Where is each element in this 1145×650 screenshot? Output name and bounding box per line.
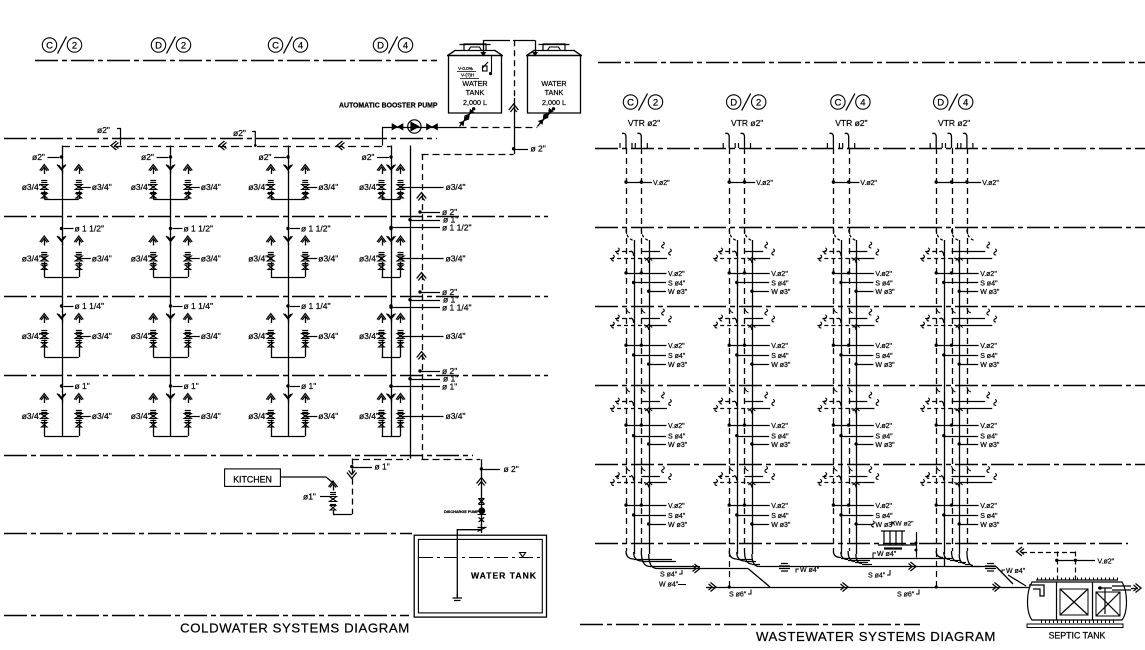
riser flow arrow above floor 375 [417, 352, 427, 358]
svg-text:ø3/4": ø3/4" [318, 411, 338, 421]
svg-text:W ø3": W ø3" [980, 522, 1000, 529]
branch fitting cluster D/2 at floor 306 [729, 308, 733, 313]
labels V/S/W C/2 at floor 306 [624, 344, 627, 347]
svg-text:WATER TANK: WATER TANK [471, 571, 537, 581]
svg-text:W ø4": W ø4" [800, 567, 820, 574]
svg-text:ø 1 1/2": ø 1 1/2" [442, 222, 471, 232]
labels V/S/W C/2 at floor 227 [624, 271, 627, 274]
water tank T2 (2000 L) [528, 51, 581, 114]
unit2 row4 down-flow arrow [166, 394, 175, 400]
unit4 row3 down-flow arrow [387, 314, 396, 320]
unit3 row2 down-flow arrow [284, 236, 293, 242]
soil/waste stack (solid) C/4-2 [856, 240, 858, 554]
unit3 row3 left fixture [266, 314, 275, 320]
svg-text:V.ø2": V.ø2" [668, 423, 685, 430]
pump suction line [382, 127, 459, 129]
unit3 row2 left fixture [266, 236, 275, 242]
septic outfall arrow [1131, 588, 1138, 590]
svg-text:ø3/4": ø3/4" [248, 411, 268, 421]
svg-text:WATER: WATER [541, 79, 566, 88]
unit3 row3 label ø3/4" right [304, 335, 307, 338]
svg-text:S ø4": S ø4" [875, 434, 893, 441]
unit2 row3 label ø3/4" right [186, 335, 189, 338]
svg-text:S ø6": S ø6" [729, 592, 747, 599]
svg-text:KW ø2": KW ø2" [891, 521, 914, 528]
unit3 row4 junction [286, 384, 289, 387]
branch fitting cluster D/2 at floor 385 [729, 387, 733, 392]
svg-text:2: 2 [181, 40, 186, 51]
unit2 row3 junction [169, 304, 172, 307]
vent terminal C/4-2 [845, 133, 849, 148]
up arrow tank feed [477, 478, 487, 484]
water level line [419, 557, 541, 559]
unit3 row1 left fixture [266, 165, 275, 171]
unit1 row2 left fixture [40, 236, 49, 242]
unit1 row1 junction [60, 155, 63, 158]
label V.ø2" first floor D/2 [728, 180, 731, 183]
unit4 row1 down-flow arrow [387, 165, 396, 171]
svg-text:ø3/4": ø3/4" [248, 182, 268, 192]
svg-text:ø3/4": ø3/4" [248, 254, 268, 264]
svg-text:VTR ø2": VTR ø2" [938, 118, 970, 128]
branch fitting cluster C/4 at floor 464 [833, 466, 837, 471]
svg-text:ø3/4": ø3/4" [131, 182, 151, 192]
labels V/S/W C/4 at floor 306 [832, 344, 835, 347]
branch fitting cluster D/4 at floor 306 [936, 308, 940, 313]
vent terminal C/2-2 [637, 133, 641, 148]
label W ø4" at G3 upper [873, 553, 876, 559]
svg-text:S ø4": S ø4" [875, 353, 893, 360]
G1 elbows to collector [626, 551, 634, 559]
unit1 row3 label ø3/4" right [77, 335, 80, 338]
svg-text:W ø3": W ø3" [771, 289, 791, 296]
tank1 outlet diagonal [460, 109, 474, 127]
svg-text:ø 1": ø 1" [375, 462, 390, 472]
svg-text:ø3/4": ø3/4" [201, 411, 221, 421]
unit4 row2 down-flow arrow [387, 236, 396, 242]
svg-text:V.ø2": V.ø2" [980, 343, 997, 350]
svg-text:D: D [377, 40, 384, 51]
unit4 row4 right fixture [396, 394, 405, 400]
labels V/S/W C/4 at floor 464 [832, 503, 835, 506]
svg-text:ø3/4": ø3/4" [22, 254, 42, 264]
unit4 row4 left fixture [377, 394, 386, 400]
labels V/S/W D/2 at floor 464 [728, 503, 731, 506]
septic internal partitions [1056, 582, 1058, 620]
septic internal X brace 1 [1060, 589, 1088, 615]
svg-text:S ø4": S ø4" [980, 513, 998, 520]
svg-text:ø 1": ø 1" [75, 381, 90, 391]
link main to dashed riser [422, 154, 514, 156]
tank fill header pipe [483, 40, 505, 42]
floor line R6 (right) [595, 543, 1128, 545]
label V.ø2" first floor C/2 [624, 180, 627, 183]
unit4 row1 junction [389, 155, 392, 158]
svg-text:W ø3": W ø3" [980, 362, 1000, 369]
down flow arrow kitchen branch [347, 473, 357, 479]
unit2 row3 bottom connector [153, 357, 188, 359]
supply riser (solid) x=410 [410, 146, 412, 459]
stack group label C/4 [831, 95, 845, 109]
svg-text:ø 1 1/4": ø 1 1/4" [301, 301, 330, 311]
floor line R1 (right) [595, 148, 1145, 150]
riser between tanks x=513.6 [514, 40, 516, 98]
svg-text:V.ø2": V.ø2" [771, 423, 788, 430]
svg-text:ø3/4": ø3/4" [92, 331, 112, 341]
svg-text:V-0.0%: V-0.0% [458, 66, 473, 71]
labels V/S/W D/4 at floor 306 [935, 344, 938, 347]
branch fitting cluster C/2 at floor 385 [626, 387, 630, 392]
KW drop to collector [916, 532, 918, 558]
labels V/S/W C/2 at floor 385 [624, 423, 627, 426]
unit1 row1 label ø3/4" right [77, 186, 80, 189]
floor line L3 (left) [4, 296, 548, 298]
G2 elbows to collector [729, 551, 737, 559]
G3 elbows to collector [833, 551, 841, 558]
riser labels at floor 216 [418, 210, 421, 213]
floor line L7 (left) [4, 615, 409, 617]
riser unit 3 [288, 146, 290, 437]
septic tank base [1027, 624, 1123, 628]
unit4 row3 bottom connector [382, 357, 401, 359]
svg-text:ø3/4": ø3/4" [22, 411, 42, 421]
KITCHEN box [225, 469, 281, 487]
unit2 row2 bottom connector [153, 277, 188, 279]
stack group label C/2 [623, 95, 637, 109]
svg-text:V.ø2": V.ø2" [771, 503, 788, 510]
svg-text:W ø3": W ø3" [771, 522, 791, 529]
floor line R5 (right) [595, 464, 1145, 466]
svg-text:ø3/4": ø3/4" [131, 411, 151, 421]
svg-text:ø 1": ø 1" [184, 381, 199, 391]
svg-text:AUTOMATIC BOOSTER PUMP: AUTOMATIC BOOSTER PUMP [339, 103, 438, 110]
unit3 row4 down-flow arrow [284, 394, 293, 400]
unit3 row1 label ø3/4" right [304, 186, 307, 189]
svg-text:V.ø2": V.ø2" [1098, 558, 1115, 565]
svg-text:COLDWATER SYSTEMS DIAGRAM: COLDWATER SYSTEMS DIAGRAM [180, 621, 410, 636]
main riser corner to pump [382, 127, 384, 146]
vent terminal D/2-2 [741, 133, 745, 148]
unit4 row1 label ø3/4" right [399, 186, 402, 189]
septic internal pipes [1098, 588, 1112, 614]
soil/waste stack (solid) D/2-1 [737, 240, 739, 554]
svg-text:V.ø2": V.ø2" [771, 271, 788, 278]
unit2 row1 junction [169, 155, 172, 158]
main collector segment G2-G4 [766, 566, 996, 568]
svg-text:VTR ø2": VTR ø2" [731, 118, 763, 128]
svg-text:S ø4": S ø4" [980, 434, 998, 441]
svg-text:VTR ø2": VTR ø2" [835, 118, 867, 128]
svg-text:ø3/4": ø3/4" [22, 182, 42, 192]
unit3 row2 junction [286, 227, 289, 230]
svg-text:ø3/4": ø3/4" [201, 331, 221, 341]
unit1 row3 left fixture [40, 314, 49, 320]
svg-text:ø2": ø2" [233, 128, 246, 138]
soil/waste stack (solid) D/2-2 [752, 240, 754, 554]
svg-text:S ø4": S ø4" [771, 434, 789, 441]
svg-text:ø 1 1/2": ø 1 1/2" [301, 224, 330, 234]
unit1 row4 bottom connector [44, 436, 79, 438]
water tank T1 (2000 L) [449, 51, 502, 114]
svg-text:W ø4": W ø4" [1006, 568, 1026, 575]
vent terminal D/2-1 [725, 133, 729, 148]
branch fitting cluster D/4 at floor 464 [936, 466, 940, 471]
septic tank inlet fitting [1029, 585, 1044, 596]
svg-text:ø2": ø2" [141, 152, 154, 162]
svg-text:S ø4": S ø4" [771, 353, 789, 360]
unit3 row1 junction [286, 155, 289, 158]
kitchen fixture [329, 481, 338, 487]
unit2 row3 left fixture [149, 314, 158, 320]
discharge pump [478, 507, 485, 514]
vent stack (dashed) D/4-2 [952, 148, 954, 551]
svg-text:C: C [834, 97, 841, 108]
unit3 row2 label ø3/4" right [304, 257, 307, 260]
unit3 row4 bottom connector [271, 436, 306, 438]
soil/waste stack (solid) D/4-1 [944, 240, 946, 554]
unit3 row3 bottom connector [271, 357, 306, 359]
unit2 row2 junction [169, 227, 172, 230]
soil/waste stack (solid) C/2-2 [649, 240, 651, 554]
svg-text:ø2": ø2" [259, 152, 272, 162]
floor line R2 (right) [595, 227, 1145, 229]
unit4 row2 junction [389, 227, 392, 230]
branch fitting cluster C/4 at floor 227 [833, 230, 841, 241]
unit4 row2 label ø3/4" right [399, 257, 402, 260]
svg-text:V.ø2": V.ø2" [653, 180, 670, 187]
svg-text:S ø4": S ø4" [668, 281, 686, 288]
floor line R4 (right) [595, 385, 1145, 387]
ground line at septic [580, 624, 920, 626]
svg-text:D: D [937, 97, 944, 108]
cleanout symbol 1 [779, 564, 790, 572]
floor line L6 (left) [4, 533, 412, 535]
main sewer line S ø6" [770, 587, 1029, 589]
flow arrow on main (1) [111, 141, 117, 150]
unit1 row2 junction [60, 227, 63, 230]
coldwater distribution main ø2" [62, 146, 391, 148]
svg-text:W ø4": W ø4" [659, 582, 679, 589]
unit1 row4 left fixture [40, 394, 49, 400]
unit1 row2 down-flow arrow [57, 236, 66, 242]
unit2 row1 bottom connector [153, 199, 188, 201]
unit4 row2 right fixture [396, 236, 405, 242]
svg-text:D: D [155, 40, 162, 51]
branch fitting cluster D/2 at floor 464 [729, 466, 733, 471]
svg-text:W ø3": W ø3" [875, 442, 895, 449]
unit1 row1 right fixture [74, 165, 83, 171]
unit1 row1 left fixture [40, 165, 49, 171]
svg-text:V.ø2": V.ø2" [668, 343, 685, 350]
svg-text:ø3/4": ø3/4" [92, 411, 112, 421]
svg-text:S ø4": S ø4" [668, 353, 686, 360]
tank1 fill drop [483, 40, 485, 52]
svg-text:S ø4": S ø4" [875, 281, 893, 288]
label V.ø2" first floor C/4 [832, 180, 835, 183]
svg-text:WASTEWATER SYSTEMS DIAGRAM: WASTEWATER SYSTEMS DIAGRAM [756, 629, 996, 644]
svg-text:ø 1": ø 1" [442, 381, 457, 391]
svg-text:S ø4": S ø4" [868, 573, 886, 580]
stack group label D/4 [934, 95, 948, 109]
tank feed drop x=481.4 [481, 459, 483, 533]
tank1 gauge line [491, 55, 493, 72]
suction pipe elbow [457, 530, 481, 598]
unit1 row3 bottom connector [44, 357, 79, 359]
svg-text:C: C [272, 40, 279, 51]
svg-text:W ø3": W ø3" [771, 362, 791, 369]
unit1 row4 label ø3/4" right [77, 415, 80, 418]
svg-text:ø3/4": ø3/4" [446, 331, 466, 341]
svg-text:S ø4": S ø4" [660, 572, 678, 579]
svg-text:VTR ø2": VTR ø2" [628, 118, 660, 128]
floor line L4 (left) [4, 375, 548, 377]
unit4 row4 down-flow arrow [387, 394, 396, 400]
booster pump P1 [408, 120, 421, 133]
svg-text:TANK: TANK [545, 88, 564, 97]
labels V/S/W D/2 at floor 227 [728, 271, 731, 274]
vent stack (dashed) C/2-1 [626, 148, 628, 551]
unit1 row2 bottom connector [44, 277, 79, 279]
vent stack (dashed) C/4-2 [849, 148, 851, 551]
foot strainer [453, 594, 463, 601]
svg-text:S ø4": S ø4" [875, 513, 893, 520]
svg-text:ø 1 1/2": ø 1 1/2" [75, 224, 104, 234]
labels V/S/W C/4 at floor 227 [832, 271, 835, 274]
svg-text:2: 2 [756, 97, 761, 108]
labels V/S/W D/2 at floor 306 [728, 344, 731, 347]
branch fitting cluster C/2 at floor 306 [626, 308, 630, 313]
label V.ø2" at septic [1055, 559, 1058, 562]
unit2 row2 label ø3/4" right [186, 257, 189, 260]
tank feed pipe from riser [422, 459, 481, 461]
unit4 row2 left fixture [377, 236, 386, 242]
svg-text:C: C [627, 97, 634, 108]
septic internal X brace 2 [1096, 592, 1120, 616]
svg-text:V.ø2": V.ø2" [980, 423, 997, 430]
unit1 row2 label ø3/4" right [77, 257, 80, 260]
unit1 row3 junction [60, 304, 63, 307]
svg-text:ø3/4": ø3/4" [22, 331, 42, 341]
svg-text:ø3/4": ø3/4" [318, 182, 338, 192]
svg-text:V.ø2": V.ø2" [860, 180, 877, 187]
supply riser (dashed) x=421.5 [422, 154, 424, 459]
label W ø4" at G4 [1002, 570, 1005, 574]
svg-text:W ø3": W ø3" [771, 442, 791, 449]
septic outlet pipe [1112, 586, 1131, 590]
svg-text:W ø4": W ø4" [877, 551, 897, 558]
labels V/S/W C/2 at floor 464 [624, 503, 627, 506]
svg-text:W ø3": W ø3" [668, 522, 688, 529]
riser unit 1 [62, 146, 64, 437]
kitchen branch pipe from riser [352, 459, 409, 461]
svg-text:W ø3": W ø3" [980, 442, 1000, 449]
svg-text:ø3/4": ø3/4" [446, 182, 466, 192]
drop diagonal to main 2 [996, 567, 1013, 585]
riser flow arrow above floor 296 [417, 273, 427, 279]
unit3 row1 bottom connector [271, 199, 306, 201]
stack group label D/2 [727, 95, 741, 109]
riser labels at floor 375 [418, 369, 421, 372]
label ø 1" kitchen branch [350, 465, 353, 468]
septic tank top hatch [1036, 579, 1118, 581]
svg-text:2: 2 [653, 97, 658, 108]
vent terminal C/2-1 [622, 133, 626, 148]
svg-text:ø3/4": ø3/4" [446, 254, 466, 264]
svg-text:V.ø2": V.ø2" [980, 271, 997, 278]
svg-text:V.ø2": V.ø2" [982, 180, 999, 187]
svg-text:W ø3": W ø3" [668, 289, 688, 296]
svg-text:V.ø2": V.ø2" [668, 271, 685, 278]
unit3 row1 right fixture [301, 165, 310, 171]
svg-text:ø3/4": ø3/4" [359, 182, 379, 192]
vent terminal D/4-2 [948, 133, 952, 148]
septic tank bottom hatch [1041, 620, 1043, 623]
branch fitting cluster C/2 at floor 227 [626, 230, 634, 241]
svg-text:ø 2": ø 2" [504, 464, 519, 474]
svg-text:DISCHARGE PUMP: DISCHARGE PUMP [444, 510, 479, 514]
svg-text:ø1": ø1" [303, 492, 316, 502]
unit2 row1 label ø3/4" right [186, 186, 189, 189]
unit3 row4 left fixture [266, 394, 275, 400]
branch fitting cluster D/2 at floor 227 [729, 230, 737, 241]
svg-text:V.ø2": V.ø2" [756, 180, 773, 187]
svg-text:TANK: TANK [466, 88, 485, 97]
svg-text:D: D [730, 97, 737, 108]
grid label D/2 (left) [151, 38, 165, 52]
KITCHEN leader [280, 477, 333, 483]
riser flow arrow above floor 216 [417, 193, 427, 199]
svg-text:V.ø2": V.ø2" [875, 423, 892, 430]
flow arrow on main (2) [219, 141, 225, 150]
unit4 row1 bottom connector [382, 199, 401, 201]
vent stack (dashed) D/2-1 [729, 148, 731, 551]
unit2 row1 left fixture [149, 165, 158, 171]
valve left of pump [392, 124, 403, 130]
unit1 row1 bottom connector [44, 199, 79, 201]
svg-text:KITCHEN: KITCHEN [233, 474, 272, 484]
svg-text:W ø3": W ø3" [875, 289, 895, 296]
unit2 row4 bottom connector [153, 436, 188, 438]
grid label C/2 (left) [42, 38, 56, 52]
svg-text:ø 2": ø 2" [531, 144, 546, 154]
svg-text:ø3/4": ø3/4" [92, 182, 112, 192]
label W ø4" leader to septic inlet [1008, 575, 1026, 586]
unit2 row1 right fixture [183, 165, 192, 171]
unit3 row2 right fixture [301, 236, 310, 242]
unit2 row2 right fixture [183, 236, 192, 242]
unit1 row1 down-flow arrow [57, 165, 66, 171]
unit2 row4 junction [169, 384, 172, 387]
svg-text:ø3/4": ø3/4" [318, 331, 338, 341]
vent stack (dashed) D/2-2 [744, 148, 746, 551]
riser labels at floor 296 [418, 290, 421, 293]
unit4 row4 junction [389, 384, 392, 387]
floor line R3 (right) [595, 306, 1145, 308]
vent terminal D/4-3 [963, 133, 967, 148]
svg-text:ø3/4": ø3/4" [359, 331, 379, 341]
svg-text:S ø4": S ø4" [771, 513, 789, 520]
soil/waste stack (solid) C/2-1 [634, 240, 636, 554]
svg-text:V.ø2": V.ø2" [875, 503, 892, 510]
svg-text:W ø3": W ø3" [668, 442, 688, 449]
vent terminal C/4-1 [829, 133, 833, 148]
svg-text:4: 4 [963, 97, 968, 108]
branch fitting cluster C/4 at floor 306 [833, 308, 837, 313]
vent terminal D/4-1 [932, 133, 936, 148]
valve above discharge pump [478, 499, 484, 505]
svg-text:ø2": ø2" [362, 152, 375, 162]
svg-text:V-(?)H: V-(?)H [461, 73, 474, 78]
